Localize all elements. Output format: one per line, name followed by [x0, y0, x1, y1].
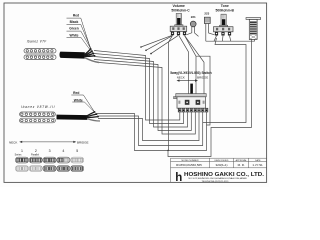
svg-text:Black: Black — [70, 20, 79, 24]
output jack J1 — [246, 18, 261, 40]
legend coil icons row 2 (bridge) — [16, 166, 84, 172]
volume lug 2 — [177, 32, 180, 36]
svg-text:NO.3-22,SHUMOKU-CHO,HIGASHI-KU: NO.3-22,SHUMOKU-CHO,HIGASHI-KU,NAGOYA,JA… — [189, 177, 248, 180]
wire N1 green — [94, 57, 188, 128]
wire N2 to lug7 — [97, 112, 203, 146]
wire jack sleeve loop — [168, 40, 251, 157]
tone lug 2 — [221, 32, 224, 36]
wire jack tip — [254, 40, 256, 42]
svg-text:1.JY.'91: 1.JY.'91 — [252, 163, 263, 167]
svg-text:5: 5 — [76, 149, 78, 153]
tone lug 3 — [228, 32, 231, 36]
switch direction arrow — [178, 80, 197, 82]
svg-text:NECK: NECK — [177, 75, 185, 79]
switch SW1 (5-way lever) — [174, 84, 208, 112]
svg-text:BRIDGE: BRIDGE — [77, 140, 89, 144]
wire N2 to lug6 — [98, 112, 199, 141]
svg-text:Ibanez V7F: Ibanez V7F — [27, 40, 48, 44]
svg-text:Green: Green — [69, 27, 79, 31]
svg-text:Series: Series — [15, 153, 23, 156]
wire N1 white — [94, 60, 191, 131]
pickup N2 cable — [57, 115, 88, 120]
tone pot VR2 — [214, 14, 234, 35]
pickup N1 cable — [61, 52, 85, 59]
wire N1 black — [94, 54, 184, 124]
wire N1 red — [94, 51, 180, 121]
legend coil icons row 1 (neck) — [16, 157, 84, 163]
volume lug 3 — [183, 32, 186, 36]
volume lug 1 — [171, 32, 174, 36]
svg-text:h: h — [175, 172, 182, 184]
svg-text:MODEL NUMBER: MODEL NUMBER — [182, 160, 199, 162]
pickup N1 (neck humbucker) — [24, 49, 56, 60]
svg-text:NECK: NECK — [9, 141, 17, 145]
legend arrow — [21, 141, 76, 143]
pickup N1 cable fan — [84, 49, 99, 63]
svg-text:1: 1 — [21, 149, 23, 153]
svg-text:HOSHINO GAKKI CO., LTD.: HOSHINO GAKKI CO., LTD. — [184, 172, 265, 178]
svg-text:500Kohm-B: 500Kohm-B — [216, 8, 235, 12]
svg-text:TELEPHONE:(052)521-3131: TELEPHONE:(052)521-3131 — [202, 181, 230, 183]
svg-text:M. R.: M. R. — [238, 163, 245, 167]
wire N2 to lug8 — [96, 112, 207, 151]
svg-text:Red: Red — [73, 91, 79, 95]
svg-text:APPROVAL: APPROVAL — [236, 159, 248, 162]
wire tone to jack — [206, 40, 255, 42]
svg-text:DATE: DATE — [255, 159, 261, 162]
wires N1 to switch (nested L paths) — [94, 35, 251, 156]
svg-text:223: 223 — [204, 12, 209, 16]
border frame — [4, 3, 267, 182]
tone lug 1 — [215, 32, 218, 36]
svg-text:White: White — [70, 33, 79, 37]
svg-text:320(6+1): 320(6+1) — [215, 163, 227, 167]
svg-text:BRIDGE: BRIDGE — [197, 75, 208, 79]
pickup N2 cable fan — [87, 112, 101, 121]
svg-text:5way(VLX91/VLX53) Switch: 5way(VLX91/VLX53) Switch — [170, 71, 212, 75]
pickup N2 (bridge humbucker) — [20, 112, 56, 123]
svg-text:RG550,RG560,565: RG550,RG560,565 — [176, 163, 202, 167]
wire tone to switch (right loop) — [203, 38, 246, 123]
svg-text:Ibanez V8TW-III: Ibanez V8TW-III — [21, 105, 55, 109]
wire N1 shield — [99, 63, 195, 135]
svg-text:500Kohm-C: 500Kohm-C — [171, 8, 190, 12]
svg-text:2: 2 — [35, 149, 37, 153]
svg-text:221: 221 — [191, 15, 196, 19]
volume pot VR1 — [170, 14, 187, 36]
tone fan wires — [203, 36, 255, 123]
switch lugs 1-8 — [179, 109, 208, 112]
volume fan wires right — [179, 35, 189, 93]
svg-text:Red: Red — [73, 14, 79, 18]
svg-text:3: 3 — [49, 149, 51, 153]
wire volume casing ground — [169, 35, 173, 150]
switch ground tab — [174, 97, 178, 99]
volume fan wires left — [141, 35, 210, 125]
svg-text:DATE ISSUED: DATE ISSUED — [215, 159, 229, 162]
svg-text:4: 4 — [62, 149, 64, 153]
title block table — [171, 158, 267, 182]
svg-text:Parallel: Parallel — [31, 153, 39, 156]
